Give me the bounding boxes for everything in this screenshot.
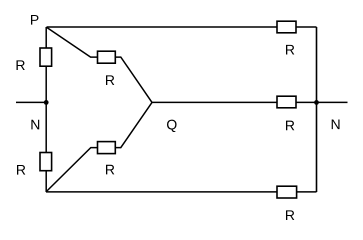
junction dot at left node N xyxy=(44,100,49,105)
node label Q xyxy=(167,120,177,132)
wire lower diagonal: bottom-left corner to Q through resistor xyxy=(46,102,152,191)
resistor R3 (upper diagonal, between P and Q) xyxy=(98,51,116,63)
resistor R1 (top-left vertical, between P and N) xyxy=(40,48,52,66)
value label R of R2 xyxy=(17,165,25,175)
resistor R6 (middle-right horizontal) xyxy=(277,96,296,108)
wire middle: node Q to right edge xyxy=(152,101,348,103)
resistor R5 (top-right horizontal) xyxy=(277,21,296,33)
value label R of R1 xyxy=(16,60,24,70)
resistor R2 (bottom-left vertical) xyxy=(40,153,52,171)
value label R of R4 xyxy=(106,165,114,175)
node label N (left) xyxy=(31,120,39,130)
resistor R7 (bottom-right horizontal) xyxy=(277,186,297,198)
node label N (right) xyxy=(332,119,340,129)
wire left bus: P down to bottom-left corner xyxy=(45,27,47,192)
value label R of R5 xyxy=(286,45,294,55)
wire right bus N xyxy=(316,27,318,192)
value label R of R7 xyxy=(286,210,294,220)
node label P xyxy=(31,15,38,25)
wire bottom: bottom-left corner to right bus xyxy=(46,191,317,193)
junction dot at right node N xyxy=(314,100,319,105)
value label R of R6 xyxy=(286,121,294,131)
wire left terminal stub into node N xyxy=(16,101,46,103)
wire top: node P to right bus xyxy=(47,26,317,28)
wire upper diagonal: P to Q through resistor xyxy=(47,27,153,102)
value label R of R3 xyxy=(106,75,114,85)
resistor R4 (lower diagonal, to Q) xyxy=(98,142,116,154)
